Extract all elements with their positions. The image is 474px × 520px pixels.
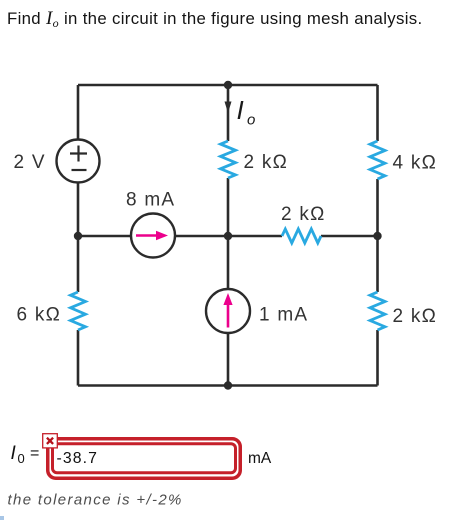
svg-text:o: o — [247, 112, 255, 129]
svg-text:8 mA: 8 mA — [126, 190, 175, 211]
svg-text:6 kΩ: 6 kΩ — [17, 305, 62, 326]
svg-text:2 kΩ: 2 kΩ — [244, 152, 289, 173]
svg-text:0: 0 — [18, 451, 25, 466]
svg-text:2 V: 2 V — [14, 152, 46, 173]
svg-text:I: I — [11, 443, 17, 464]
svg-text:4 kΩ: 4 kΩ — [393, 153, 438, 174]
svg-text:1 mA: 1 mA — [259, 305, 308, 326]
svg-text:mA: mA — [248, 450, 272, 467]
svg-text:the tolerance is +/-2%: the tolerance is +/-2% — [8, 492, 183, 509]
svg-text:-38.7: -38.7 — [57, 450, 99, 467]
svg-text:2 kΩ: 2 kΩ — [281, 204, 326, 225]
svg-text:Find Io in the circuit in the: Find Io in the circuit in the figure usi… — [7, 8, 422, 30]
svg-text:I: I — [237, 95, 244, 125]
svg-text:2 kΩ: 2 kΩ — [393, 306, 438, 327]
svg-text:=: = — [30, 445, 39, 462]
